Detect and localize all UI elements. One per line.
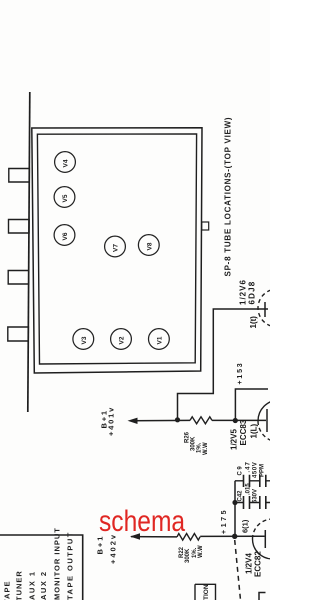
tube V8: [138, 235, 159, 256]
svg-text:.015: .015: [246, 483, 252, 495]
svg-text:+402v: +402v: [108, 533, 117, 564]
svg-text:V1: V1: [156, 336, 163, 344]
capacitor C42 plates: [244, 496, 266, 509]
svg-text:ECC82: ECC82: [254, 551, 263, 577]
V4 grid bar: [264, 530, 266, 548]
svg-text:AUX 2: AUX 2: [39, 570, 48, 600]
chassis outer box: [32, 128, 202, 373]
B+1 wire with arrow: [130, 419, 190, 421]
input panel box: [0, 535, 83, 600]
svg-text:+401v: +401v: [107, 406, 116, 436]
resistor R26: [190, 417, 212, 424]
tube V1: [149, 329, 170, 350]
svg-text:schema: schema: [99, 504, 186, 538]
svg-text:+175: +175: [221, 508, 228, 534]
B+1 second wire with arrow: [131, 536, 177, 538]
svg-text:6DJ8: 6DJ8: [248, 281, 257, 305]
knob 1: [9, 169, 30, 183]
dashed line below node D: [235, 540, 241, 600]
chassis inner box: [37, 134, 196, 364]
tube V4: [55, 152, 76, 173]
junction node B: [233, 418, 238, 423]
capacitor feed wire: [234, 481, 236, 536]
junction box label TION: [195, 584, 216, 600]
svg-text:AUX 1: AUX 1: [28, 570, 37, 600]
tube V6: [54, 225, 75, 246]
junction node C: [232, 500, 237, 505]
svg-text:450V: 450V: [253, 462, 259, 478]
svg-text:MONITOR INPUT: MONITOR INPUT: [53, 527, 62, 600]
svg-text:V2: V2: [119, 336, 126, 344]
tube V2: [111, 329, 132, 350]
svg-text:1(L): 1(L): [250, 424, 259, 439]
V5 grid bar: [266, 409, 268, 432]
svg-text:1/2V4: 1/2V4: [245, 553, 254, 574]
front panel line: [28, 92, 30, 412]
svg-text:1%.: 1%.: [197, 442, 203, 453]
knob 2: [9, 220, 30, 234]
svg-text:V7: V7: [113, 244, 120, 252]
svg-text:+153: +153: [237, 362, 244, 385]
knob 3: [8, 271, 29, 285]
tube 1/2V6 6DJ8 envelope (dashed): [258, 289, 296, 327]
capacitor C42 leads: [235, 502, 270, 504]
tube V7: [105, 236, 126, 257]
junction node A: [175, 417, 180, 422]
svg-text:C9: C9: [238, 465, 244, 476]
arrowhead B+1: [128, 418, 138, 424]
V6 grid bar: [264, 302, 266, 317]
resistor R22: [177, 534, 200, 541]
junction node D: [232, 534, 237, 539]
svg-text:V8: V8: [146, 242, 153, 250]
chassis group (tube location drawing, slightly skewed): [8, 92, 209, 412]
svg-text:ECC83: ECC83: [239, 419, 248, 445]
svg-text:TION: TION: [203, 584, 210, 600]
capacitor C9 plates: [244, 475, 266, 487]
tube 1/2V5 envelope: [258, 400, 279, 421]
svg-text:6(1): 6(1): [241, 519, 250, 533]
svg-text:SP-8 TUBE LOCATIONS-(TOP VIEW): SP-8 TUBE LOCATIONS-(TOP VIEW): [224, 117, 233, 277]
svg-text:TAPE: TAPE: [3, 581, 12, 600]
svg-text:V6: V6: [62, 232, 69, 240]
svg-text:1/2V6: 1/2V6: [239, 279, 248, 305]
capacitor C9 leads: [235, 480, 270, 482]
tube V5: [54, 187, 75, 208]
svg-text:630V: 630V: [253, 489, 259, 503]
svg-text:V5: V5: [62, 194, 69, 202]
svg-text:W.W: W.W: [198, 545, 204, 558]
svg-text:W.W: W.W: [203, 442, 209, 455]
svg-text:300K: 300K: [185, 548, 191, 563]
svg-text:1(t): 1(t): [249, 316, 258, 329]
svg-text:V4: V4: [63, 159, 70, 167]
svg-text:.47: .47: [246, 461, 252, 472]
svg-text:C42: C42: [238, 490, 244, 502]
arrowhead B+1 second: [130, 533, 140, 539]
wire from V6 plate to B+ node: [178, 309, 269, 420]
tube V3: [73, 329, 94, 350]
V4 cathode lead mark: [259, 593, 266, 600]
right side tab: [202, 222, 209, 230]
+153 wire to V5 plate: [235, 389, 268, 421]
svg-text:TAPE OUTPUT: TAPE OUTPUT: [66, 531, 75, 600]
knob 4: [8, 327, 29, 341]
tube 1/2V4 envelope: [253, 539, 273, 559]
svg-text:V3: V3: [81, 336, 88, 344]
svg-text:TUNER: TUNER: [15, 570, 24, 600]
svg-text:1/2V5: 1/2V5: [230, 429, 239, 450]
svg-text:PPM: PPM: [260, 464, 266, 477]
